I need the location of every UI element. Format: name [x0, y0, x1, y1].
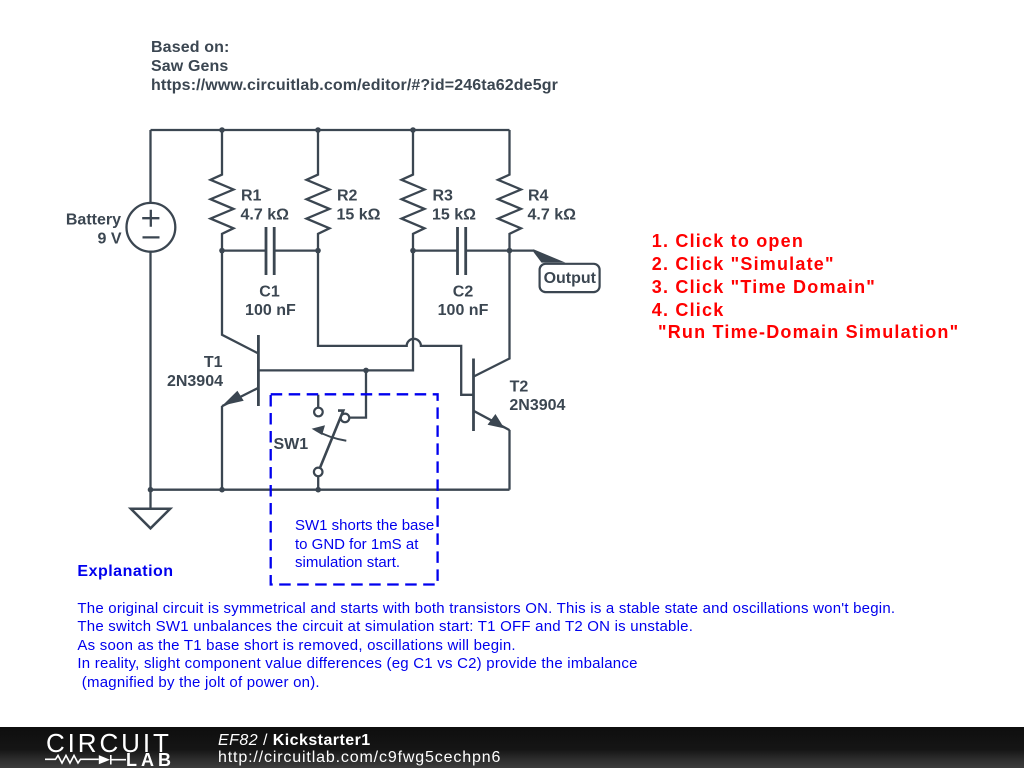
footer url text	[218, 749, 501, 767]
svg-text:2N3904: 2N3904	[509, 397, 565, 414]
resistor R4	[498, 130, 521, 251]
header note text	[151, 38, 558, 95]
resistor R3	[402, 130, 425, 251]
CircuitLab logo wordmark	[46, 728, 172, 759]
svg-text:2N3904: 2N3904	[167, 373, 223, 390]
capacitor C1	[222, 249, 266, 251]
svg-text:R2: R2	[337, 188, 358, 205]
resistor R1	[211, 130, 234, 251]
junction node dot base wire	[363, 368, 369, 374]
capacitor C2	[413, 249, 458, 251]
svg-text:T2: T2	[510, 378, 529, 395]
svg-text:100 nF: 100 nF	[245, 302, 296, 319]
annotation dashed box SW1	[271, 394, 438, 584]
resistor R2	[307, 130, 330, 251]
switch SW1	[317, 395, 319, 408]
battery V1 9V source circle	[126, 203, 175, 252]
transistor T2 2N3904	[472, 359, 475, 432]
svg-text:R3: R3	[433, 188, 454, 205]
junction node dots top rail	[219, 127, 225, 133]
wire battery bottom lead	[149, 252, 151, 490]
red instruction text	[652, 230, 960, 344]
wire ground rail	[151, 489, 510, 491]
explanation heading	[77, 563, 173, 581]
footer circuit title	[218, 732, 371, 750]
output label box	[540, 264, 600, 292]
svg-text:15 kΩ: 15 kΩ	[337, 207, 381, 224]
wire node B drop and cross-coupling to T2 base with hop	[318, 251, 473, 395]
CircuitLab logo resistor-diode row + LAB	[0, 746, 180, 768]
switch arc arrow	[316, 430, 346, 441]
svg-text:R4: R4	[528, 188, 549, 205]
svg-text:SW1: SW1	[274, 436, 309, 453]
junction node dots capacitor row	[219, 248, 225, 254]
svg-text:100 nF: 100 nF	[438, 302, 489, 319]
wire node C drop and T1 base wire	[260, 251, 414, 371]
svg-text:Battery: Battery	[66, 212, 121, 229]
svg-text:4.7 kΩ: 4.7 kΩ	[241, 207, 290, 224]
explanation body text	[77, 600, 895, 692]
bottom black bar	[0, 727, 1024, 768]
svg-text:C2: C2	[453, 284, 474, 301]
transistor T1 2N3904	[257, 335, 260, 406]
svg-text:15 kΩ: 15 kΩ	[432, 207, 476, 224]
output flag wire	[510, 249, 534, 251]
svg-text:4.7 kΩ: 4.7 kΩ	[528, 207, 577, 224]
svg-text:Output: Output	[544, 270, 597, 287]
svg-text:R1: R1	[241, 188, 262, 205]
svg-text:9 V: 9 V	[97, 231, 121, 248]
output flag wedge	[534, 249, 566, 262]
junction node dots ground rail	[148, 487, 154, 493]
svg-text:T1: T1	[204, 354, 223, 371]
SW1 note text	[295, 517, 434, 573]
ground symbol	[149, 490, 151, 509]
wire battery top lead	[149, 130, 151, 203]
wire top rail	[151, 129, 510, 131]
svg-text:C1: C1	[259, 284, 280, 301]
